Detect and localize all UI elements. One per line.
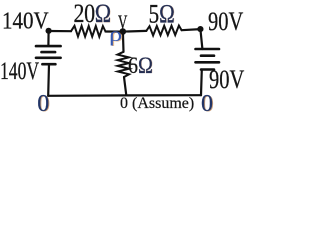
label V node <box>118 12 127 32</box>
resistor R1 20ohm <box>71 26 106 37</box>
node dot right <box>197 26 203 32</box>
battery B1 plate short1 <box>42 51 56 54</box>
battery B1 140V plate long1 <box>36 45 61 48</box>
battery B2 plate long1 <box>196 48 220 51</box>
label 140V top-left <box>2 9 49 33</box>
label 0 assume <box>120 96 194 112</box>
label 20ohm <box>74 1 111 27</box>
label rho <box>109 25 122 45</box>
resistor R2 5ohm <box>146 26 181 36</box>
battery B2 90V plate short2 <box>201 68 214 71</box>
label 90V top-right <box>208 8 243 35</box>
wire 5ohm to right node <box>182 29 201 30</box>
wire 6ohm bottom lead <box>124 77 126 95</box>
label 5ohm <box>149 1 175 27</box>
label 90V right <box>209 66 244 93</box>
wire right battery bottom lead <box>200 70 203 96</box>
battery B2 plate short1 <box>201 54 214 57</box>
wire left battery bottom lead <box>47 64 50 96</box>
label 0 bottom-right <box>201 92 213 116</box>
wire node V to 5ohm <box>123 30 147 33</box>
label 140V left <box>0 59 39 84</box>
wire bottom <box>48 94 201 97</box>
node dot left <box>46 28 52 34</box>
wire top-left segment <box>49 30 71 32</box>
resistor R3 6ohm vertical <box>118 52 130 77</box>
wire 20ohm to node V <box>106 30 123 32</box>
battery B1 plate long2 <box>36 56 61 59</box>
battery B2 plate long2 <box>196 61 220 64</box>
battery B1 plate short2 <box>42 63 55 66</box>
wire left battery top lead <box>47 31 49 45</box>
wire node V down lead <box>122 32 125 52</box>
label 0 bottom-left <box>37 92 49 116</box>
wire right battery top lead <box>200 29 202 49</box>
node V dot center <box>120 28 127 35</box>
label 6ohm <box>128 54 153 78</box>
